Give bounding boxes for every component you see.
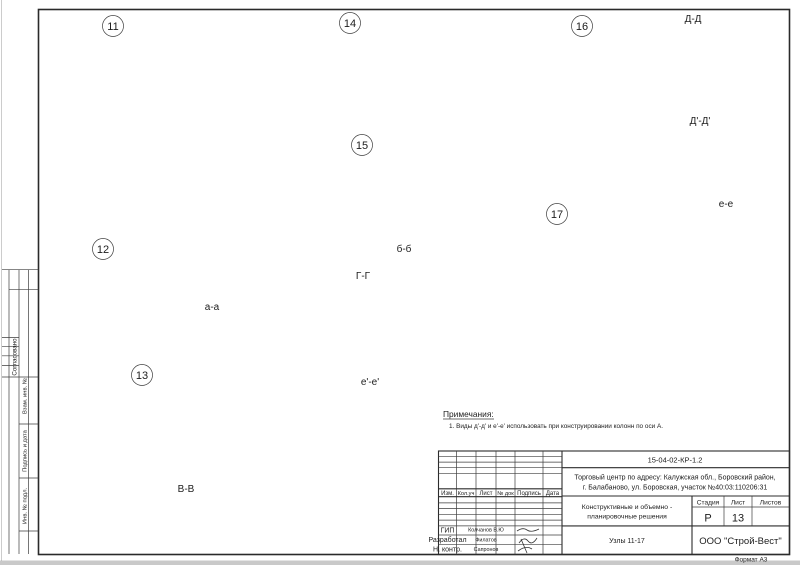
svg-text:№ док: № док	[497, 491, 514, 497]
svg-text:В-В: В-В	[178, 484, 195, 495]
paper bottom grey band	[0, 561, 800, 565]
svg-text:ООО "Строй-Вест": ООО "Строй-Вест"	[699, 536, 782, 547]
svg-text:12: 12	[97, 244, 109, 256]
left part horizontals	[439, 455, 563, 457]
svg-text:Конструктивные и объемно -: Конструктивные и объемно -	[582, 503, 673, 511]
svg-text:Взам. инв. №: Взам. инв. №	[22, 378, 28, 414]
paper left edge line	[1, 0, 3, 561]
svg-text:Дата: Дата	[546, 491, 560, 497]
svg-text:планировочные решения: планировочные решения	[587, 514, 667, 521]
svg-text:Листов: Листов	[760, 500, 782, 507]
node circles and section titles placeholders	[93, 13, 734, 496]
svg-text:15-04-02-КР-1.2: 15-04-02-КР-1.2	[648, 456, 703, 465]
svg-text:13: 13	[136, 370, 148, 382]
right part	[562, 467, 790, 469]
svg-text:17: 17	[551, 209, 563, 221]
signatures	[517, 529, 539, 553]
svg-text:Формат А3: Формат А3	[735, 557, 768, 564]
title block	[428, 451, 789, 564]
svg-text:Торговый центр по адресу: Калу: Торговый центр по адресу: Калужская обл.…	[574, 474, 775, 482]
svg-text:ГИП: ГИП	[441, 528, 455, 535]
svg-text:15: 15	[356, 140, 368, 152]
svg-text:Н. контр.: Н. контр.	[433, 547, 462, 554]
svg-text:г. Балабаново, ул. Боровская,: г. Балабаново, ул. Боровская, участок №4…	[583, 484, 768, 492]
svg-text:Подпись: Подпись	[517, 491, 541, 497]
svg-text:13: 13	[732, 513, 744, 525]
svg-text:Сапронов: Сапронов	[474, 547, 499, 553]
svg-text:е-е: е-е	[719, 199, 734, 210]
svg-text:Разработал: Разработал	[428, 536, 466, 544]
svg-text:Стадия: Стадия	[697, 500, 720, 507]
svg-text:Лист: Лист	[479, 491, 492, 497]
svg-text:Подпись и дата: Подпись и дата	[22, 429, 28, 471]
svg-text:11: 11	[107, 21, 118, 33]
svg-text:Кол.уч: Кол.уч	[458, 491, 475, 497]
svg-text:Узлы 11-17: Узлы 11-17	[609, 538, 645, 545]
svg-text:1. Виды д'-д' и е'-е' испол: 1. Виды д'-д' и е'-е' использовать при к…	[449, 423, 663, 430]
svg-text:Д-Д: Д-Д	[685, 14, 702, 25]
svg-text:14: 14	[344, 18, 356, 30]
svg-text:16: 16	[576, 21, 588, 33]
svg-text:Лист: Лист	[731, 500, 745, 507]
svg-text:е'-е': е'-е'	[361, 377, 379, 388]
svg-text:Д'-Д': Д'-Д'	[690, 116, 711, 127]
svg-text:Изм.: Изм.	[441, 491, 454, 497]
svg-text:Г-Г: Г-Г	[356, 271, 371, 282]
svg-text:Примечания:: Примечания:	[443, 409, 494, 419]
svg-text:Колчанов В.Ю: Колчанов В.Ю	[468, 528, 504, 534]
svg-text:Согласовано: Согласовано	[12, 338, 19, 376]
svg-text:Р: Р	[704, 513, 711, 525]
svg-text:Инв. № подл.: Инв. № подл.	[22, 488, 28, 524]
svg-text:Филатов: Филатов	[475, 538, 497, 544]
svg-text:б-б: б-б	[397, 243, 412, 255]
left stamp column outer	[2, 270, 39, 554]
left part verticals	[456, 451, 458, 555]
notes	[443, 409, 663, 430]
svg-text:а-а: а-а	[205, 302, 220, 313]
